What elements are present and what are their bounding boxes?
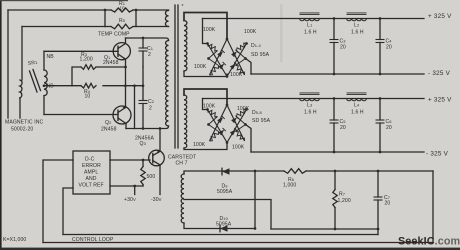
capacitor C7 (374, 197, 383, 200)
wire box lower-left to loop (63, 188, 73, 235)
core T1 lines (175, 5, 178, 148)
svg-text:20: 20 (340, 125, 346, 131)
svg-text:NB: NB (47, 54, 55, 60)
svg-text:500: 500 (147, 174, 156, 180)
node C5 top (333, 97, 336, 100)
inductor T1 winding B (181, 174, 184, 223)
wire bridge2 minus drop (246, 125, 252, 153)
svg-text:100K: 100K (244, 29, 257, 35)
svg-text:10: 10 (85, 94, 91, 100)
svg-text:VOLT REF: VOLT REF (79, 183, 104, 189)
node Q1 emitter R3 junction (124, 66, 127, 69)
svg-text:- 325 V: - 325 V (428, 70, 451, 77)
svg-text:20: 20 (386, 45, 392, 51)
capacitor C6 (376, 120, 385, 123)
node C5 bottom (333, 151, 336, 154)
svg-text:CONTROL LOOP: CONTROL LOOP (72, 237, 114, 243)
resistor R6 (284, 169, 306, 174)
wire parallel link x134 (134, 86, 136, 129)
resistor R1 (111, 8, 133, 12)
wire C2 lower lead (142, 104, 144, 129)
wire W2 bottom lead to bridge2 S (184, 143, 227, 150)
wire control loop lower line (43, 242, 433, 244)
svg-text:CH 7: CH 7 (176, 161, 188, 167)
resistor R 500 (142, 160, 144, 167)
svg-text:10: 10 (120, 5, 126, 10)
node y128 C2 junction (142, 127, 145, 130)
wire Q3 collector riser (159, 129, 161, 152)
svg-text:100K: 100K (230, 72, 243, 78)
svg-text:2: 2 (149, 106, 152, 112)
svg-text:100K: 100K (194, 64, 207, 70)
node R7 bottom (334, 228, 337, 231)
svg-text:2N458: 2N458 (103, 60, 119, 66)
node C6 top (379, 97, 382, 100)
node C4 top (379, 17, 382, 20)
wire inner vertical x22 to SR1 (21, 27, 23, 81)
inductor SR1 gate winding (44, 70, 47, 96)
node C7 bottom (377, 228, 380, 231)
svg-text:AMPL: AMPL (84, 170, 98, 176)
node SR1 gate center tap (43, 84, 46, 87)
wire winding B top lead / D9 line (184, 171, 255, 174)
node junction R1 right (135, 9, 138, 12)
wire SR1 gate bottom lead (43, 96, 45, 115)
svg-text:MAGNETIC INC: MAGNETIC INC (5, 120, 43, 126)
inductor T1 secondary W2 (184, 95, 187, 148)
diode D9 (222, 168, 230, 175)
resistor R3 (81, 65, 96, 70)
inductor L2 (347, 13, 367, 21)
wire +30V stub (134, 186, 136, 195)
wire control pair from inner corner to primary S1 bottom (22, 26, 169, 28)
wire bridge2 plus to rail (203, 99, 208, 110)
wire bridge1 minus drop (246, 59, 252, 75)
svg-text:1.6 H: 1.6 H (304, 30, 317, 36)
inductor L3 (300, 93, 320, 101)
node C3 bottom (333, 73, 336, 76)
resistor R7 (334, 171, 336, 190)
wire R4 line from SR1 tap to C-link (44, 85, 143, 87)
svg-text:1,200: 1,200 (80, 57, 93, 63)
wire box to Q3 base (110, 159, 150, 161)
svg-text:NB: NB (47, 84, 55, 90)
wire SR1 control winding lead down (19, 98, 21, 118)
svg-text:20: 20 (386, 125, 392, 131)
inductor L4 (347, 93, 367, 101)
svg-text:1.6 H: 1.6 H (304, 110, 317, 116)
svg-text:SD 95A: SD 95A (251, 52, 270, 58)
wire R5 parallel loop right vertical (135, 10, 137, 27)
svg-text:K=X1,000: K=X1,000 (3, 237, 26, 243)
wire winding B center tap (184, 200, 271, 230)
svg-text:2N458: 2N458 (101, 127, 117, 133)
node C6 bottom (379, 151, 382, 154)
wire channel1 minus rail (251, 73, 424, 75)
wire R5 line segs (105, 26, 136, 28)
wire W1 top lead to bridge1 N (184, 13, 227, 40)
svg-text:2: 2 (148, 52, 151, 58)
node R500 top (142, 159, 145, 162)
node chain R4 junction (124, 84, 127, 87)
scan edge top-left (0, 0, 128, 1)
inductor L1 (300, 13, 320, 21)
diode bridge D5-8 (206, 104, 248, 144)
core SR1 diagonal lines (30, 70, 41, 93)
wire top rail with R1 from frame corner to transformer primary top (8, 9, 169, 11)
capacitor C4 (376, 40, 385, 43)
wire bridge1 plus to rail (203, 19, 208, 44)
node D9 line junction (254, 170, 257, 173)
wire C7 bottom to control loop upper (377, 229, 379, 235)
svg-text:TEMP COMP: TEMP COMP (98, 32, 130, 38)
wire C1 leads (142, 38, 144, 67)
svg-text:+ 325 V: + 325 V (428, 13, 452, 20)
wire sense right edge to control loop (432, 171, 434, 243)
svg-text:20: 20 (340, 45, 346, 51)
svg-text:+ 325 V: + 325 V (428, 97, 452, 104)
wire channel2 plus rail (203, 98, 425, 100)
wire C4 leads (379, 19, 381, 75)
svg-text:D-C: D-C (85, 157, 95, 163)
wire C5 leads (333, 99, 335, 153)
svg-text:1.6 H: 1.6 H (351, 110, 364, 116)
inductor T1 primary S1 (165, 11, 168, 27)
svg-text:ERROR: ERROR (82, 163, 101, 169)
wire Q1 emitter chain to Q2 collector (125, 59, 127, 107)
wire W2 top lead to bridge2 N (184, 89, 227, 105)
svg-text:100K: 100K (232, 145, 245, 151)
inductor SR1 control winding (20, 80, 22, 98)
node R7 top (334, 170, 337, 173)
scan streak artifact (280, 4, 283, 62)
svg-text:100K: 100K (203, 104, 216, 110)
node +30V junction (133, 185, 136, 188)
wire R3 branch (72, 67, 126, 86)
wire control loop upper line (63, 234, 378, 236)
resistor R5 temp comp (111, 24, 133, 29)
node C2 R4 junction (142, 84, 145, 87)
scan edge bottom (0, 248, 460, 250)
node y128 Q3 junction (159, 127, 162, 130)
inductor T1 primary S2 (166, 41, 169, 126)
wire SR1 gate top lead to NB node (43, 51, 45, 70)
node junction R1 left (104, 9, 107, 12)
wire channel1 plus rail (203, 18, 425, 20)
capacitor C1 (139, 48, 148, 51)
wire box upper-left to loop (43, 160, 73, 243)
wire Q3 emitter to -30V (159, 165, 161, 195)
wire sense top rail (255, 170, 433, 172)
node D10 line junction (254, 227, 257, 230)
svg-text:100K: 100K (203, 27, 216, 33)
transistor Q3 2N456A (149, 150, 165, 166)
wire left frame vertical (7, 10, 9, 118)
capacitor C3 (330, 40, 339, 43)
node C4 bottom (379, 73, 382, 76)
svg-text:5095A: 5095A (217, 189, 233, 195)
wire NB upper to Q1 base (44, 50, 118, 52)
wire sense bottom rail (271, 228, 378, 230)
resistor R4 (81, 83, 96, 88)
wire Q2 emitter to y128 rail (125, 124, 127, 129)
svg-text:5095A: 5095A (216, 222, 232, 228)
svg-text:20: 20 (385, 201, 391, 207)
wire W1 bottom lead to bridge1 S (184, 71, 227, 77)
svg-text:100K: 100K (237, 106, 250, 112)
wire winding B bottom lead / D10 line (184, 223, 255, 229)
diode D10 (220, 225, 228, 232)
wire R5 parallel loop left vertical (104, 10, 106, 27)
svg-text:100K: 100K (193, 142, 206, 148)
wire Q2 base from SR1 (44, 114, 118, 116)
transistor Q2 2N458 (113, 106, 131, 124)
svg-text:AND: AND (86, 176, 97, 182)
svg-text:1,000: 1,000 (283, 183, 296, 189)
node C7 top (377, 170, 380, 173)
svg-text:50002-20: 50002-20 (11, 127, 33, 133)
node link x134 top (133, 84, 136, 87)
wire channel2 minus rail (251, 151, 424, 153)
svg-text:SeekIC.com: SeekIC.com (398, 236, 460, 248)
wire C7 leads (377, 171, 379, 229)
capacitor C2 (139, 101, 148, 104)
svg-text:1.6 H: 1.6 H (351, 30, 364, 36)
inductor T1 secondary W1 (184, 21, 187, 72)
wire Q1 collector to primary S2 top (126, 38, 169, 41)
node C1 tap (142, 37, 145, 40)
wire Q1 collector riser (125, 38, 127, 44)
svg-text:*: * (182, 4, 184, 10)
wire box lower-right to +30V and R500 bottom (110, 185, 143, 187)
svg-text:- 325 V: - 325 V (426, 151, 449, 158)
wire C3 leads (333, 19, 335, 75)
capacitor C5 (330, 120, 339, 123)
svg-text:1,200: 1,200 (338, 198, 351, 204)
diode bridge D1-4 (206, 38, 248, 78)
scan edge left (0, 0, 2, 250)
wire C-link vertical upper (142, 67, 144, 100)
svg-text:SD 95A: SD 95A (252, 118, 271, 124)
wire y128 rail to primary S2 bottom (126, 126, 169, 129)
wire C6 leads (379, 99, 381, 153)
transistor Q1 2N458 (113, 43, 130, 60)
block D-C ERROR AMPL AND VOLT REF (73, 151, 110, 194)
node C3 top (333, 17, 336, 20)
wire D9-D10 join vertical (254, 171, 256, 229)
